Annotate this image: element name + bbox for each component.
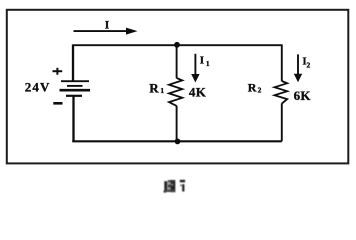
- svg-text:1: 1: [160, 86, 164, 95]
- svg-text:2: 2: [258, 86, 262, 95]
- svg-text:I: I: [200, 55, 204, 67]
- svg-text:R: R: [248, 81, 257, 95]
- svg-text:6K: 6K: [294, 88, 312, 103]
- svg-text:I: I: [105, 20, 110, 32]
- svg-text:1: 1: [206, 59, 210, 68]
- svg-text:2: 2: [307, 61, 311, 70]
- svg-text:24V: 24V: [25, 80, 51, 95]
- svg-text:R: R: [149, 81, 159, 96]
- svg-text:4K: 4K: [189, 84, 207, 99]
